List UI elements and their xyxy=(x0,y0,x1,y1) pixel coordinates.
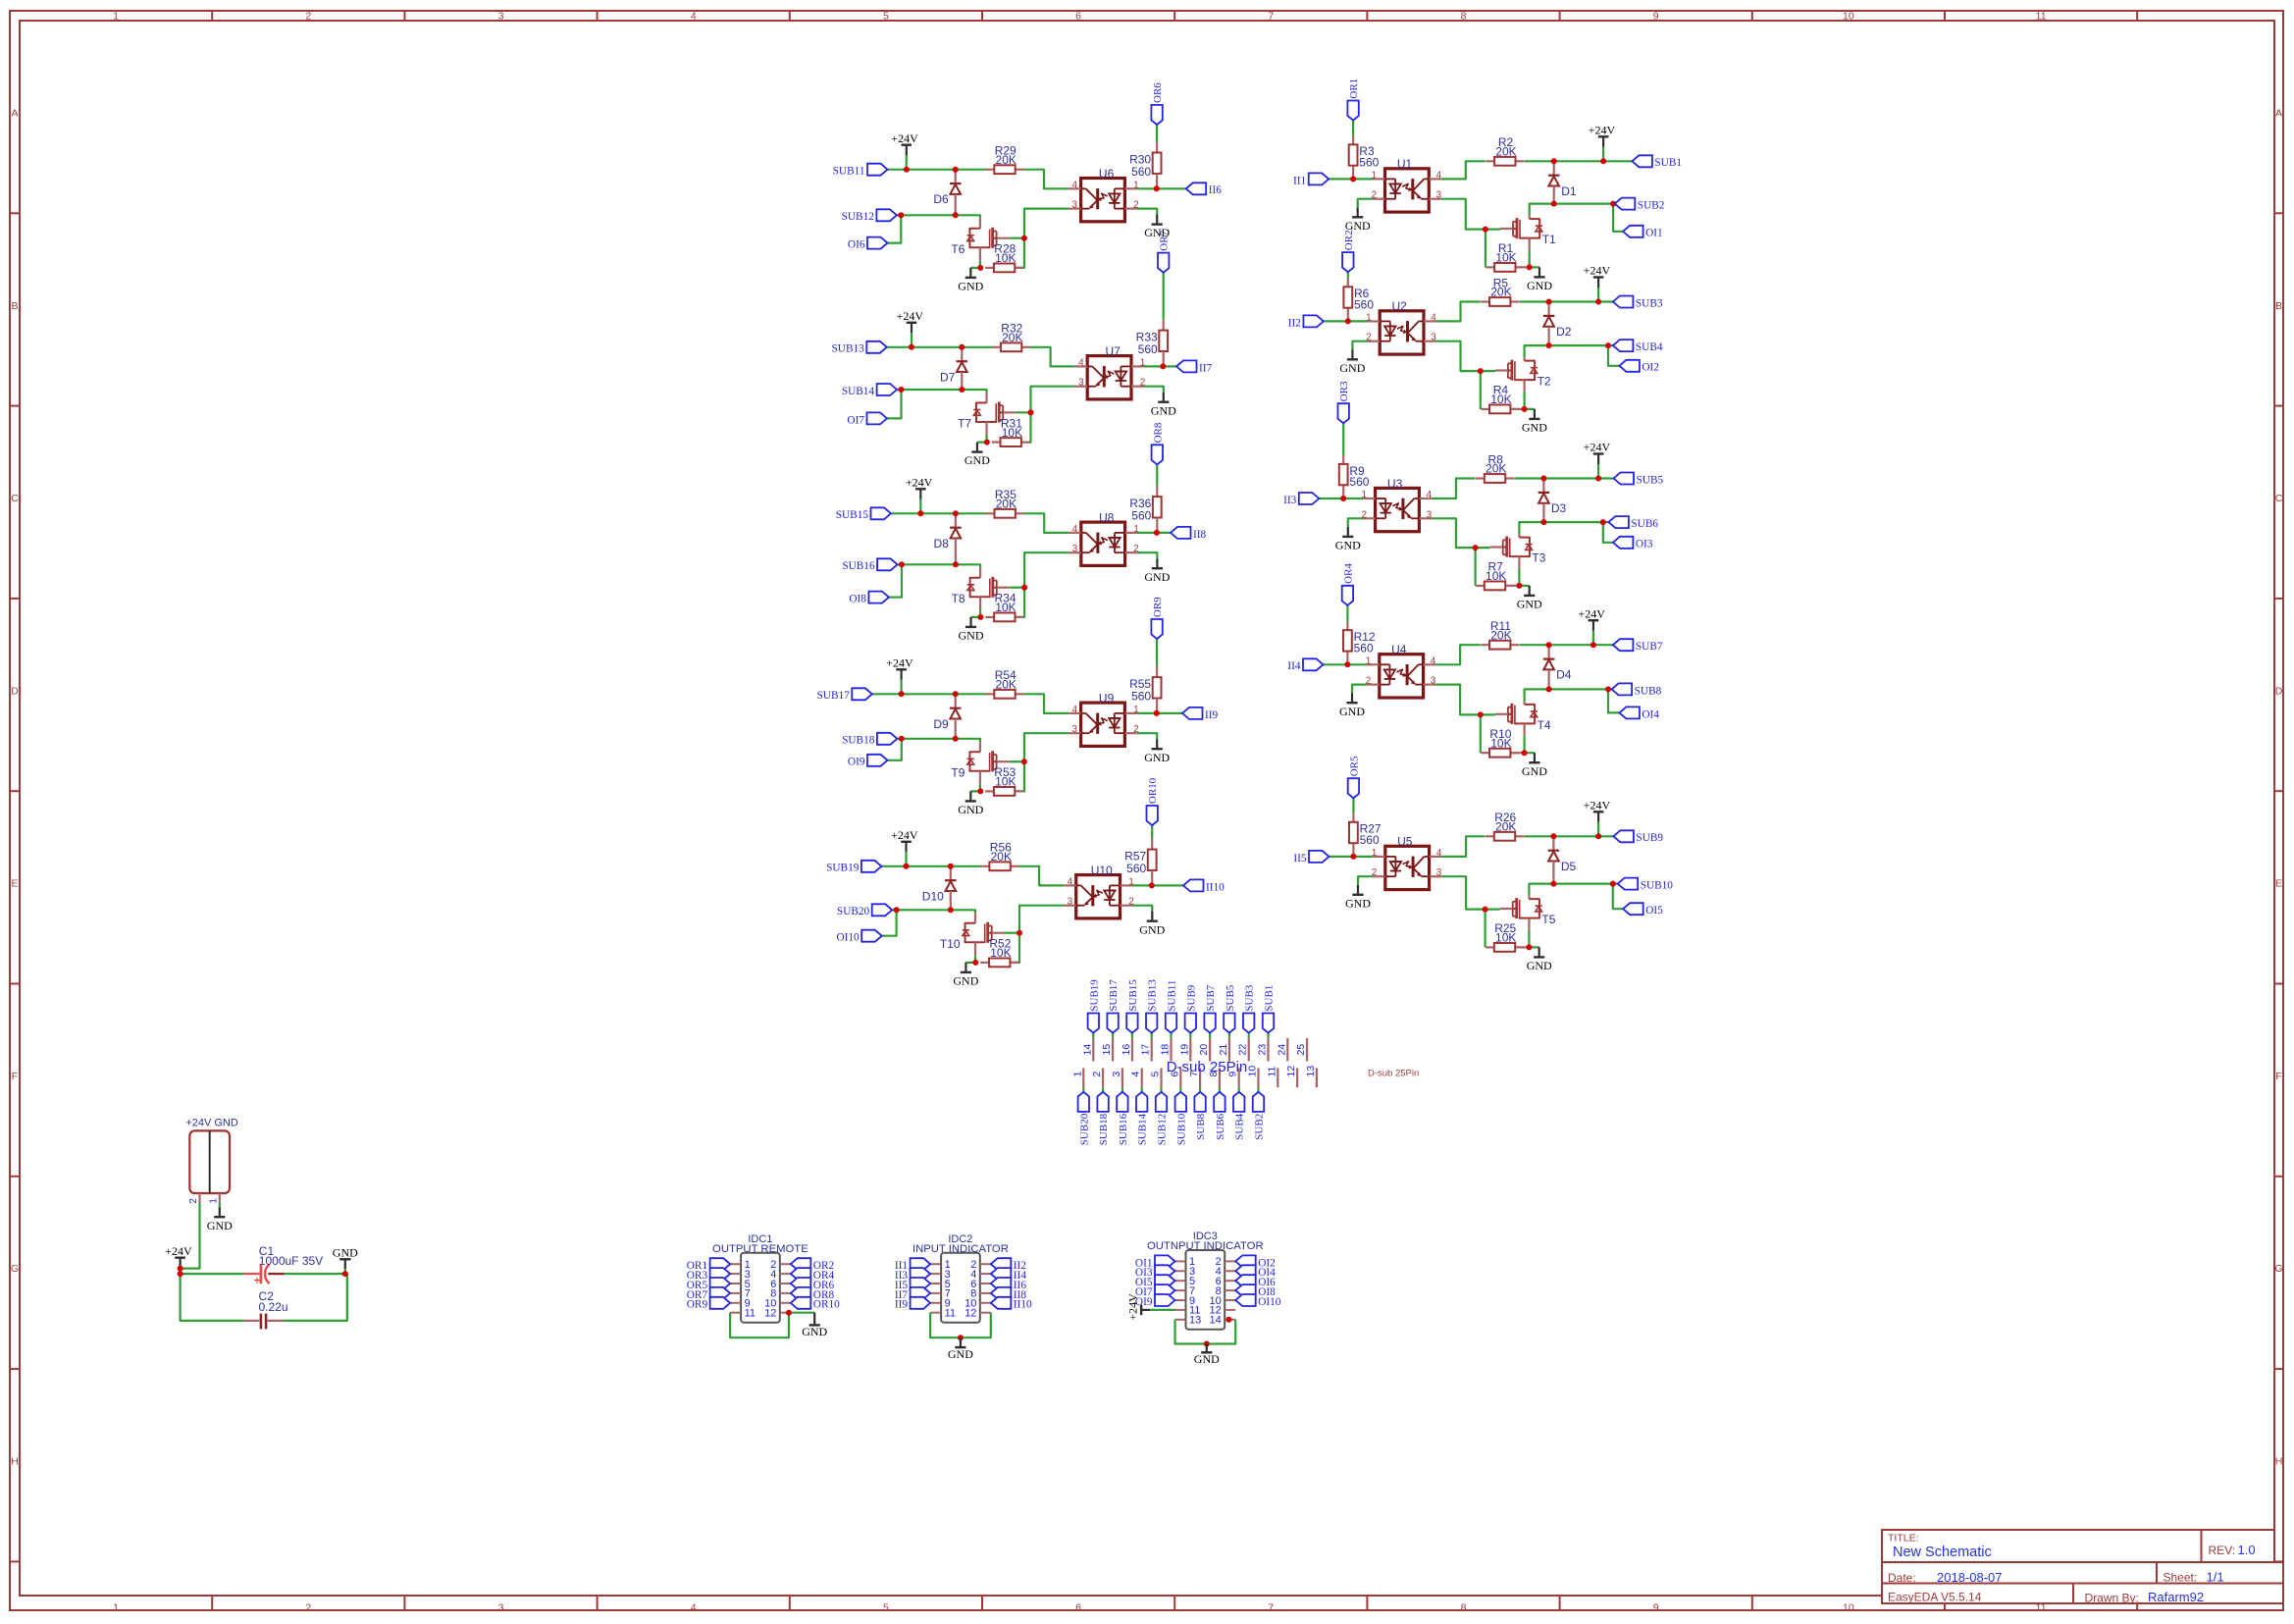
net flag SUB11 xyxy=(833,164,888,178)
net flag OI2 xyxy=(1235,1255,1276,1269)
svg-text:2: 2 xyxy=(188,1198,199,1204)
frame row tick left xyxy=(10,983,20,985)
IDC1 pin 1 xyxy=(730,1259,751,1271)
svg-text:New Schematic: New Schematic xyxy=(1893,1545,1992,1560)
junction xyxy=(959,387,965,393)
svg-text:10K: 10K xyxy=(995,251,1016,265)
wire SUB17 net xyxy=(872,694,1069,713)
wire SUB5 net xyxy=(1514,477,1613,479)
net flag OI3 xyxy=(1135,1265,1175,1279)
wire SUB8 net xyxy=(1525,689,1612,701)
IDC3 pin 12 xyxy=(1210,1305,1236,1317)
D-sub pin 17 xyxy=(1140,1038,1152,1062)
svg-text:11: 11 xyxy=(945,1308,956,1320)
wire SUB9 net xyxy=(1524,835,1613,837)
wire SUB11 net xyxy=(888,170,1069,189)
svg-text:Rafarm92: Rafarm92 xyxy=(2148,1590,2204,1604)
resistor R56 xyxy=(981,841,1019,871)
svg-text:11: 11 xyxy=(2036,11,2047,23)
svg-text:13: 13 xyxy=(1189,1315,1201,1327)
net flag OR5 xyxy=(1348,756,1361,798)
svg-text:1: 1 xyxy=(208,1198,219,1204)
D-sub pin 9 xyxy=(1227,1068,1239,1087)
junction xyxy=(904,864,910,869)
svg-text:G: G xyxy=(11,1263,19,1275)
svg-text:SUB1: SUB1 xyxy=(1264,985,1276,1012)
wire pin 1 to SUB20 xyxy=(1082,1087,1084,1092)
wire T6 source to GND xyxy=(970,260,980,268)
svg-text:4: 4 xyxy=(1072,524,1078,535)
junction xyxy=(1595,299,1601,305)
svg-text:9: 9 xyxy=(1653,11,1659,23)
svg-text:1: 1 xyxy=(1071,1072,1083,1077)
optocoupler U3 xyxy=(1362,477,1433,532)
svg-text:21: 21 xyxy=(1218,1044,1229,1056)
net flag OI1 xyxy=(1623,226,1663,239)
svg-text:560: 560 xyxy=(1138,342,1158,356)
+24V power U10 block xyxy=(891,828,918,866)
title block xyxy=(1882,1530,2283,1603)
net flag OR3 xyxy=(1338,381,1351,423)
diode D2 xyxy=(1543,302,1572,346)
net flag SUB1 xyxy=(1263,985,1276,1033)
IDC2 pin 10 xyxy=(965,1298,991,1310)
svg-text:+24V: +24V xyxy=(165,1244,192,1258)
svg-text:1: 1 xyxy=(1366,312,1372,323)
svg-text:560: 560 xyxy=(1354,641,1374,655)
transistor T5 xyxy=(1500,896,1556,930)
svg-text:D1: D1 xyxy=(1561,184,1577,198)
IDC3 pin 3 xyxy=(1175,1266,1196,1278)
optocoupler U2 xyxy=(1366,299,1436,354)
net flag SUB14 xyxy=(1136,1092,1149,1145)
svg-text:16: 16 xyxy=(1121,1044,1132,1056)
svg-text:SUB3: SUB3 xyxy=(1636,297,1663,309)
D-sub pin 18 xyxy=(1160,1038,1172,1062)
junction xyxy=(984,440,990,445)
wire pin 17 to SUB13 xyxy=(1151,1033,1153,1038)
frame row tick right xyxy=(2274,1560,2283,1562)
frame column tick bottom xyxy=(597,1596,599,1610)
ground IDC3 xyxy=(1194,1344,1220,1367)
junction xyxy=(1600,158,1606,164)
wire SUB7 net xyxy=(1520,644,1613,646)
frame column tick top xyxy=(1559,11,1561,21)
IDC1 pin 5 xyxy=(730,1279,751,1290)
svg-text:SUB18: SUB18 xyxy=(842,735,875,747)
svg-text:20K: 20K xyxy=(996,153,1017,167)
wire II1 net xyxy=(1329,178,1373,180)
svg-text:SUB19: SUB19 xyxy=(1088,979,1100,1012)
svg-text:OI1: OI1 xyxy=(1645,228,1663,239)
net flag OR7 xyxy=(1158,230,1171,272)
svg-text:OR6: OR6 xyxy=(1152,82,1164,103)
svg-text:1: 1 xyxy=(1371,170,1377,181)
net flag SUB17 xyxy=(1107,979,1120,1033)
D-sub pin 14 xyxy=(1081,1038,1093,1062)
svg-text:1000uF 35V: 1000uF 35V xyxy=(259,1254,323,1268)
svg-text:3: 3 xyxy=(498,11,504,23)
diode D10 xyxy=(922,866,957,911)
net flag SUB17 xyxy=(817,688,872,702)
resistor R33 xyxy=(1136,320,1168,367)
resistor R27 xyxy=(1349,822,1382,847)
junction xyxy=(1473,545,1479,550)
net flag OR4 xyxy=(791,1268,835,1282)
svg-text:T5: T5 xyxy=(1541,913,1555,926)
wire U6 pin1 to II6 xyxy=(1137,187,1186,189)
net flag II2 xyxy=(1288,315,1324,329)
svg-text:GND: GND xyxy=(207,1219,233,1232)
svg-text:3: 3 xyxy=(1427,509,1433,520)
net flag OR10 xyxy=(791,1297,840,1311)
wire SUB16 net xyxy=(898,564,981,567)
wire U3 pin2 to GND xyxy=(1348,518,1363,527)
junction xyxy=(1478,711,1484,717)
svg-text:3: 3 xyxy=(1436,867,1442,878)
wire U2 pin3 to T2 gate xyxy=(1436,341,1495,409)
svg-text:OR3: OR3 xyxy=(1338,381,1350,401)
svg-text:SUB13: SUB13 xyxy=(1147,979,1159,1012)
junction xyxy=(1551,158,1557,164)
net flag SUB13 xyxy=(832,341,887,355)
svg-text:T2: T2 xyxy=(1538,375,1551,389)
net flag II10 xyxy=(1183,879,1225,893)
wire pin 14 to SUB19 xyxy=(1092,1033,1094,1038)
svg-text:E: E xyxy=(11,878,18,890)
wire pin 22 to SUB3 xyxy=(1248,1033,1250,1038)
svg-text:GND: GND xyxy=(958,280,983,293)
svg-text:OI3: OI3 xyxy=(1636,539,1653,550)
svg-text:SUB2: SUB2 xyxy=(1254,1114,1266,1140)
net flag SUB19 xyxy=(1088,979,1101,1033)
svg-text:Date:: Date: xyxy=(1888,1571,1916,1585)
svg-text:T4: T4 xyxy=(1538,718,1551,732)
ground at T3 source xyxy=(1517,586,1542,611)
svg-text:II1: II1 xyxy=(1293,175,1306,186)
svg-text:SUB14: SUB14 xyxy=(1137,1113,1149,1145)
D-sub pin 4 xyxy=(1130,1068,1142,1087)
IDC1 pin 7 xyxy=(730,1288,751,1300)
svg-text:A: A xyxy=(11,108,18,120)
svg-text:10: 10 xyxy=(1843,1602,1854,1614)
svg-text:3: 3 xyxy=(1072,724,1078,735)
resistor R1 xyxy=(1486,241,1524,272)
net flag SUB18 xyxy=(842,733,897,747)
svg-text:3: 3 xyxy=(1078,378,1084,389)
svg-text:GND: GND xyxy=(1339,705,1365,718)
svg-text:OI2: OI2 xyxy=(1642,362,1659,374)
optocoupler U8 xyxy=(1069,511,1139,566)
D-sub pin 15 xyxy=(1101,1038,1113,1062)
svg-text:1: 1 xyxy=(1133,705,1139,715)
svg-text:1: 1 xyxy=(1128,876,1134,887)
frame column tick bottom xyxy=(789,1596,791,1610)
IDC2 pin 3 xyxy=(930,1269,951,1281)
svg-text:+24V: +24V xyxy=(1126,1293,1140,1321)
svg-text:SUB10: SUB10 xyxy=(1175,1113,1187,1145)
circuit block U10 (SUB19/SUB20) xyxy=(826,777,1225,987)
junction xyxy=(1225,1317,1231,1323)
ground at U4 pin2 xyxy=(1339,693,1365,718)
svg-text:GND: GND xyxy=(1151,403,1176,417)
frame row tick right xyxy=(2274,1176,2283,1178)
resistor R9 xyxy=(1339,464,1370,489)
svg-text:10K: 10K xyxy=(995,775,1016,789)
transistor T8 xyxy=(952,568,1010,610)
junction xyxy=(1527,264,1533,270)
IDC3 pin 14 xyxy=(1210,1315,1236,1327)
svg-text:OR9: OR9 xyxy=(687,1299,708,1311)
svg-text:OR4: OR4 xyxy=(1342,563,1354,584)
frame row tick left xyxy=(10,790,20,792)
wire OI5 net xyxy=(1613,884,1623,910)
svg-text:II3: II3 xyxy=(1283,495,1297,506)
svg-text:II6: II6 xyxy=(1209,184,1223,196)
svg-text:OUTPUT REMOTE: OUTPUT REMOTE xyxy=(712,1243,808,1255)
svg-text:D-sub 25Pin: D-sub 25Pin xyxy=(1368,1069,1419,1079)
svg-text:U9: U9 xyxy=(1099,692,1115,706)
net flag SUB11 xyxy=(1166,980,1178,1033)
svg-text:1: 1 xyxy=(1366,655,1372,666)
svg-text:GND: GND xyxy=(1144,751,1170,764)
svg-text:10: 10 xyxy=(1843,11,1854,23)
wire U6 pin2 to GND xyxy=(1137,209,1157,215)
svg-text:SUB15: SUB15 xyxy=(1127,979,1139,1012)
junction xyxy=(1149,882,1155,888)
junction xyxy=(894,907,900,913)
IDC1 pin 6 xyxy=(770,1279,791,1290)
svg-text:T8: T8 xyxy=(952,592,965,605)
svg-text:+: + xyxy=(254,1276,260,1287)
circuit block U9 (SUB17/SUB18) xyxy=(817,597,1219,816)
wire SUB2 net xyxy=(1530,204,1615,216)
frame column tick top xyxy=(1173,11,1175,21)
svg-text:10K: 10K xyxy=(1490,393,1511,406)
frame row tick right xyxy=(2274,405,2283,407)
svg-text:+24V: +24V xyxy=(1584,799,1611,812)
svg-text:F: F xyxy=(12,1071,18,1082)
wire SUB6 net xyxy=(1519,522,1608,534)
net flag II8 xyxy=(991,1287,1027,1301)
net flag II7 xyxy=(1176,360,1213,374)
net flag OI4 xyxy=(1235,1265,1276,1279)
junction xyxy=(904,167,910,173)
svg-text:OI8: OI8 xyxy=(849,594,866,605)
svg-text:10K: 10K xyxy=(990,946,1011,960)
resistor R52 xyxy=(980,937,1018,968)
ground at U8 pin2 xyxy=(1144,558,1170,584)
svg-text:U10: U10 xyxy=(1091,864,1113,877)
junction xyxy=(1546,642,1552,648)
svg-text:SUB8: SUB8 xyxy=(1195,1113,1207,1139)
net flag OI10 xyxy=(1235,1294,1281,1308)
svg-text:SUB8: SUB8 xyxy=(1635,685,1662,697)
optocoupler U7 xyxy=(1075,344,1146,399)
junction xyxy=(959,344,965,350)
wire U4 pin4 to R11 xyxy=(1435,645,1481,664)
net flag OR3 xyxy=(687,1268,730,1282)
svg-text:U6: U6 xyxy=(1099,167,1115,181)
ground at T10 source xyxy=(953,963,978,988)
svg-text:OI4: OI4 xyxy=(1642,708,1659,720)
svg-text:SUB16: SUB16 xyxy=(842,560,875,572)
svg-text:560: 560 xyxy=(1360,833,1380,847)
net flag II4 xyxy=(1287,658,1323,672)
ground at U7 pin2 xyxy=(1151,393,1176,418)
frame row tick right xyxy=(2274,598,2283,600)
resistor R4 xyxy=(1481,384,1519,414)
junction xyxy=(1483,227,1488,233)
svg-text:U2: U2 xyxy=(1392,299,1408,313)
frame row tick left xyxy=(10,1368,20,1370)
svg-text:G: G xyxy=(2274,1263,2282,1275)
net flag SUB16 xyxy=(842,558,897,572)
net flag OI1 xyxy=(1135,1255,1175,1269)
svg-text:SUB16: SUB16 xyxy=(1118,1113,1129,1145)
circuit block U5 (II5/SUB9) xyxy=(1293,756,1673,972)
svg-text:SUB9: SUB9 xyxy=(1185,984,1197,1011)
resistor R34 xyxy=(985,592,1023,622)
svg-text:2: 2 xyxy=(305,11,311,23)
svg-text:+24V: +24V xyxy=(1584,264,1611,278)
wire U7 pin1 to II7 xyxy=(1143,365,1176,367)
ground at T7 source xyxy=(965,443,990,468)
wire T8 source to GND xyxy=(971,609,981,617)
wire U2 pin4 to R5 xyxy=(1436,302,1481,322)
svg-text:20K: 20K xyxy=(1486,462,1506,476)
net flag OR1 xyxy=(1347,79,1360,121)
wire U3 pin3 to T3 gate xyxy=(1432,518,1490,586)
svg-text:SUB1: SUB1 xyxy=(1654,157,1682,169)
svg-text:4: 4 xyxy=(1078,357,1084,368)
net flag OR9 xyxy=(1151,597,1164,639)
svg-text:+24V: +24V xyxy=(886,656,913,670)
D-sub pin 6 xyxy=(1169,1068,1180,1087)
net flag SUB19 xyxy=(826,861,881,874)
net flag OI3 xyxy=(1613,537,1653,550)
svg-text:OI9: OI9 xyxy=(848,757,865,768)
D-sub pin 8 xyxy=(1208,1068,1220,1087)
svg-text:13: 13 xyxy=(1305,1066,1317,1077)
svg-text:8: 8 xyxy=(1461,1602,1467,1614)
frame column tick top xyxy=(981,11,983,21)
resistor R54 xyxy=(986,668,1024,699)
wire IDC2 ground loop xyxy=(930,1313,991,1338)
wire II2 net xyxy=(1324,320,1368,322)
connector D-sub 25Pin xyxy=(1071,979,1419,1146)
junction xyxy=(977,788,983,794)
IDC3 pin 7 xyxy=(1175,1285,1196,1297)
diode D8 xyxy=(934,513,962,564)
svg-text:2: 2 xyxy=(1140,378,1146,389)
D-sub pin 16 xyxy=(1121,1038,1132,1062)
+24V power U5 block xyxy=(1584,799,1611,837)
net flag SUB20 xyxy=(1078,1092,1091,1145)
svg-text:E: E xyxy=(2275,878,2282,890)
net flag II9 xyxy=(895,1297,930,1311)
wire OI8 net xyxy=(889,564,902,597)
wire pin11 to +24V xyxy=(1150,1309,1174,1311)
IDC3 pin 8 xyxy=(1216,1285,1236,1297)
svg-text:11: 11 xyxy=(745,1308,756,1320)
wire U5 pin4 to R26 xyxy=(1441,836,1485,857)
frame row tick right xyxy=(2274,983,2283,985)
resistor R28 xyxy=(985,242,1023,273)
optocoupler U6 xyxy=(1069,167,1139,222)
IDC2 pin 7 xyxy=(930,1288,951,1300)
junction xyxy=(953,561,959,567)
svg-text:SUB5: SUB5 xyxy=(1225,984,1236,1011)
junction xyxy=(1546,342,1552,348)
frame row tick left xyxy=(10,405,20,407)
svg-text:20K: 20K xyxy=(1490,286,1511,299)
ground at T4 source xyxy=(1522,753,1547,778)
svg-text:22: 22 xyxy=(1237,1044,1249,1056)
net flag SUB9 xyxy=(1613,830,1663,844)
wire U8 pin3 to T8 gate xyxy=(1010,552,1069,617)
D-sub pin 5 xyxy=(1150,1068,1162,1087)
svg-text:SUB9: SUB9 xyxy=(1636,832,1663,844)
svg-text:2: 2 xyxy=(1128,897,1134,908)
net flag SUB12 xyxy=(842,209,897,223)
ground at U1 pin2 xyxy=(1345,207,1371,233)
junction xyxy=(786,1310,792,1316)
svg-text:OI10: OI10 xyxy=(836,932,860,944)
junction xyxy=(899,387,905,393)
svg-text:SUB4: SUB4 xyxy=(1636,341,1663,353)
net flag SUB6 xyxy=(1214,1092,1226,1140)
junction xyxy=(1605,342,1611,348)
frame column tick bottom xyxy=(1366,1596,1368,1610)
svg-text:D8: D8 xyxy=(934,537,950,550)
net flag SUB14 xyxy=(842,384,897,397)
svg-text:+24V GND: +24V GND xyxy=(185,1118,238,1129)
svg-text:GND: GND xyxy=(1144,570,1170,584)
wire pin12 to GND xyxy=(789,1312,814,1314)
svg-text:24: 24 xyxy=(1276,1044,1287,1056)
wire U5 pin2 to GND xyxy=(1358,876,1373,885)
svg-text:OR10: OR10 xyxy=(813,1299,840,1311)
svg-text:2: 2 xyxy=(1372,867,1378,878)
IDC2 pin 1 xyxy=(930,1259,951,1271)
transistor T4 xyxy=(1495,701,1551,735)
svg-text:D7: D7 xyxy=(940,370,956,384)
svg-text:SUB2: SUB2 xyxy=(1638,200,1665,212)
D-sub pin 13 xyxy=(1305,1066,1317,1088)
frame column tick top xyxy=(1944,11,1946,21)
header pin 2 xyxy=(198,1193,200,1203)
svg-text:B: B xyxy=(11,300,18,312)
svg-text:H: H xyxy=(2275,1456,2283,1468)
IDC2 pin 2 xyxy=(970,1259,991,1271)
svg-text:12: 12 xyxy=(1285,1066,1297,1077)
svg-text:25: 25 xyxy=(1295,1044,1307,1056)
D-sub pin 12 xyxy=(1285,1066,1297,1088)
ground at U10 pin2 xyxy=(1139,912,1165,937)
frame column tick top xyxy=(597,11,599,21)
svg-text:2: 2 xyxy=(1362,509,1368,520)
wire SUB12 net xyxy=(897,215,980,218)
svg-text:OR7: OR7 xyxy=(1159,230,1171,250)
svg-text:14: 14 xyxy=(1210,1315,1222,1327)
svg-text:T7: T7 xyxy=(958,417,971,431)
svg-text:GND: GND xyxy=(1345,896,1371,910)
svg-text:4: 4 xyxy=(1427,490,1433,500)
svg-text:3: 3 xyxy=(1431,333,1436,343)
net flag SUB9 xyxy=(1185,984,1198,1032)
junction xyxy=(958,1335,964,1340)
